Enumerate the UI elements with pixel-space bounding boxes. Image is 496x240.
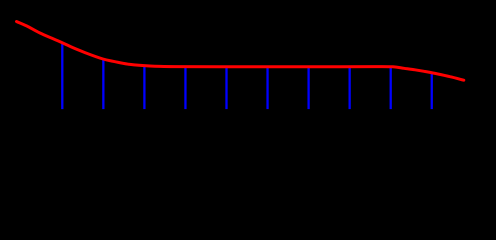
sample stem 4	[184, 67, 186, 109]
sample stem 10	[431, 73, 433, 109]
sample stem 1	[61, 44, 63, 109]
sample stem 3	[143, 67, 145, 110]
sample stem 6	[266, 67, 268, 109]
signal curve	[17, 22, 464, 81]
sample stem 2	[102, 59, 104, 109]
sample stem 5	[225, 67, 227, 109]
sample stem 9	[390, 67, 392, 109]
sample stem 7	[307, 67, 309, 109]
sample stem 8	[348, 67, 350, 109]
